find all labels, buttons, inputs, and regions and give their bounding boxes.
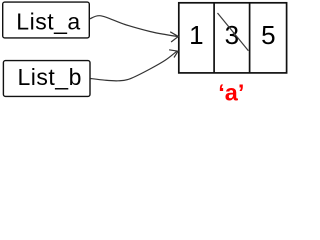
- svg-text:1: 1: [189, 20, 203, 50]
- cell divider 1: [213, 3, 215, 73]
- arrowhead A: [170, 32, 178, 42]
- svg-text:‘a’: ‘a’: [218, 79, 244, 105]
- arrowhead B: [169, 50, 178, 58]
- svg-text:List_a: List_a: [16, 9, 80, 35]
- svg-text:List_b: List_b: [18, 64, 82, 90]
- wire from List_a: [90, 16, 178, 37]
- array table outline: [179, 3, 287, 73]
- wire from List_b: [91, 51, 178, 81]
- box List_b: [3, 61, 90, 97]
- cell divider 2: [249, 3, 251, 73]
- strike-out slash over 3: [218, 13, 249, 51]
- svg-text:5: 5: [261, 20, 275, 50]
- box List_a: [3, 2, 90, 38]
